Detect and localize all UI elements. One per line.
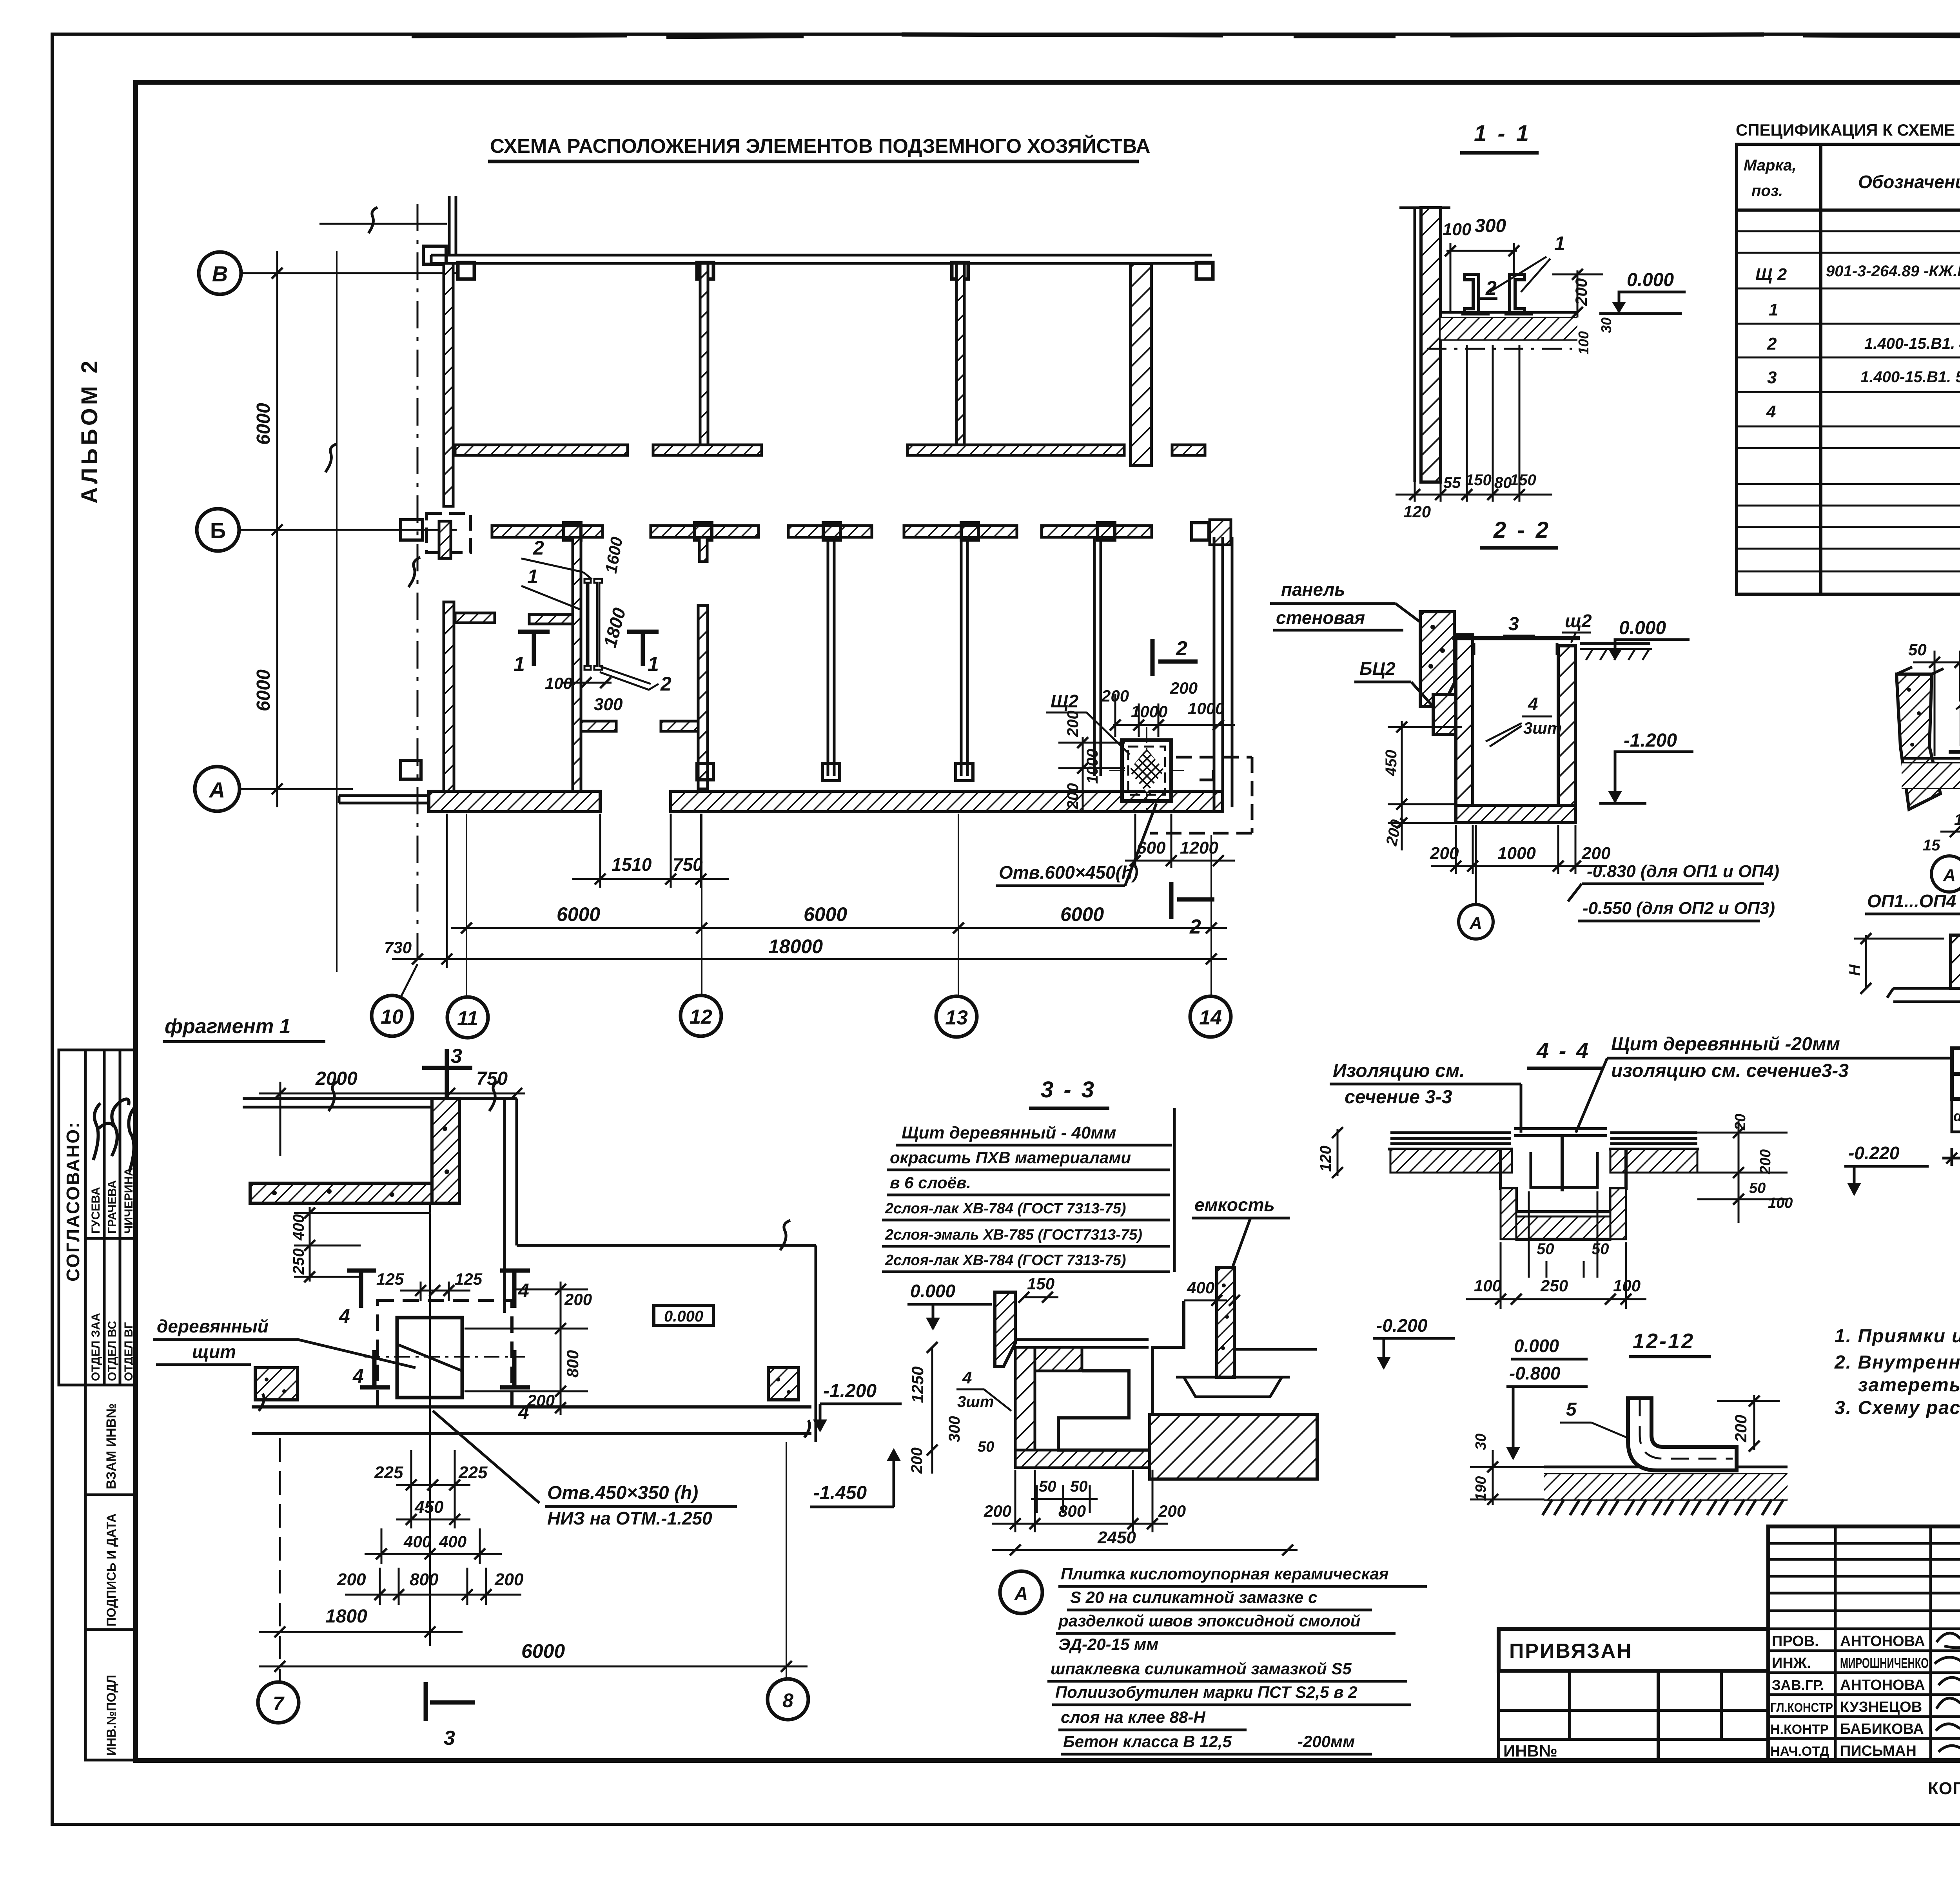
svg-text:1: 1 xyxy=(1769,300,1778,319)
svg-text:1. Приямки и лотки выполнить и: 1. Приямки и лотки выполнить из бетона к… xyxy=(1835,1326,1960,1347)
svg-text:200: 200 xyxy=(1064,711,1082,737)
svg-text:-0.830 (для ОП1 и ОП4): -0.830 (для ОП1 и ОП4) xyxy=(1587,862,1779,881)
section mark 1-1 right xyxy=(627,632,659,666)
svg-text:200: 200 xyxy=(908,1447,926,1474)
svg-text:ГРАЧЕВА: ГРАЧЕВА xyxy=(106,1180,119,1234)
svg-text:АНТОНОВА: АНТОНОВА xyxy=(1840,1633,1925,1650)
axis line Б xyxy=(239,529,457,531)
axis circle Б xyxy=(197,509,239,551)
svg-text:1.400-15.В1. 410-03: 1.400-15.В1. 410-03 xyxy=(1864,335,1960,352)
L concrete wall horizontal xyxy=(250,1183,432,1203)
svg-text:А: А xyxy=(1469,914,1482,933)
floor edge 3-3 xyxy=(1015,1340,1149,1347)
svg-text:800: 800 xyxy=(563,1350,582,1378)
svg-text:120: 120 xyxy=(1317,1146,1334,1172)
svg-text:-0.220: -0.220 xyxy=(1848,1143,1900,1163)
svg-text:ИНЖ.: ИНЖ. xyxy=(1772,1655,1811,1671)
grid 10 dash-dot axis xyxy=(417,204,419,968)
svg-text:АНТОНОВА: АНТОНОВА xyxy=(1840,1677,1925,1693)
trench 4-4 xyxy=(1501,1149,1626,1212)
floor hatch 1-1 xyxy=(1441,318,1577,339)
svg-text:КОПИРОВАЛ: КОРШУНОВА: КОПИРОВАЛ: КОРШУНОВА xyxy=(1928,1779,1960,1798)
svg-text:фрагмент 1: фрагмент 1 xyxy=(165,1015,291,1038)
svg-text:450: 450 xyxy=(1383,750,1400,776)
cover plate щ2 xyxy=(1452,636,1580,640)
svg-text:50: 50 xyxy=(1039,1478,1056,1495)
svg-text:Отв.600×450(h): Отв.600×450(h) xyxy=(999,862,1138,883)
щит plate 2 in plan xyxy=(594,579,602,670)
svg-text:4: 4 xyxy=(339,1305,350,1327)
ИНВ №ПОДЛ box xyxy=(85,1630,136,1760)
svg-text:слоя на клее 88-Н: слоя на клее 88-Н xyxy=(1061,1708,1206,1726)
pit wall x1140 lower xyxy=(444,602,454,791)
svg-text:стеновая: стеновая xyxy=(1276,607,1365,628)
svg-text:14: 14 xyxy=(1199,1006,1222,1029)
svg-text:емкость: емкость xyxy=(1194,1195,1275,1215)
spec table grid xyxy=(1737,144,1960,594)
vertical dim chain right of pit 200 800 200 xyxy=(465,1282,588,1415)
svg-text:55: 55 xyxy=(1443,474,1461,491)
tank bottom structure xyxy=(1176,1349,1317,1397)
svg-text:2: 2 xyxy=(1767,334,1777,353)
svg-text:ОТДЕЛ ЗАА: ОТДЕЛ ЗАА xyxy=(89,1313,102,1381)
svg-text:Бетон класса В 12,5: Бетон класса В 12,5 xyxy=(1063,1732,1232,1751)
column 11/В xyxy=(458,263,474,279)
svg-text:125: 125 xyxy=(455,1270,483,1288)
wall edge extension line xyxy=(336,251,338,972)
svg-text:2: 2 xyxy=(533,537,544,559)
small corner mark in dashed pit xyxy=(1200,770,1213,780)
L concrete wall vertical xyxy=(432,1099,459,1203)
щит plate 1 in plan xyxy=(584,579,591,670)
svg-text:затереть цементно - песчаным р: затереть цементно - песчаным раствором. xyxy=(1858,1375,1960,1396)
stem wall x2120 xyxy=(828,537,834,776)
svg-text:КУЗНЕЦОВ: КУЗНЕЦОВ xyxy=(1840,1699,1922,1715)
stem wall x1793 short top xyxy=(699,537,707,562)
svg-text:400: 400 xyxy=(439,1532,466,1551)
column at bottom of 1793 xyxy=(697,763,713,780)
svg-text:11: 11 xyxy=(457,1007,478,1030)
column 14/В xyxy=(1196,263,1213,279)
svg-text:6000: 6000 xyxy=(253,669,274,711)
plan lower part xyxy=(339,535,1252,938)
svg-text:120: 120 xyxy=(1403,502,1431,521)
room bottom wall xyxy=(252,1394,811,1438)
svg-text:3: 3 xyxy=(1767,368,1777,387)
svg-text:50: 50 xyxy=(1592,1240,1609,1258)
svg-text:300: 300 xyxy=(1475,216,1506,236)
right hatched column xyxy=(768,1368,799,1400)
svg-text:1200: 1200 xyxy=(1180,838,1218,857)
room right edge xyxy=(815,1245,817,1442)
Б/14 corner wall xyxy=(1210,520,1231,545)
А axis circle 2-2 xyxy=(1475,825,1477,905)
svg-text:Обозначение: Обозначение xyxy=(1858,172,1960,192)
dim line 6000s xyxy=(451,927,1227,929)
inner wood shield rect xyxy=(397,1318,462,1398)
pit Щ2 outer square xyxy=(1122,740,1171,801)
svg-text:0.000: 0.000 xyxy=(1514,1336,1559,1356)
ground hatch ticks xyxy=(1543,1499,1772,1515)
floor slab right part xyxy=(1609,1133,1699,1149)
svg-text:400: 400 xyxy=(1187,1278,1214,1297)
svg-text:150: 150 xyxy=(1510,471,1536,489)
svg-text:СОГЛАСОВАНО:: СОГЛАСОВАНО: xyxy=(63,1121,83,1282)
extension verticals xyxy=(447,814,1211,997)
svg-text:18000: 18000 xyxy=(768,935,823,957)
pit Щ2 inner dashed xyxy=(1128,747,1165,795)
привязан box xyxy=(1499,1629,1768,1671)
ground line right xyxy=(1580,642,1650,645)
svg-text:ПОДПИСЬ И ДАТА: ПОДПИСЬ И ДАТА xyxy=(104,1514,118,1626)
svg-text:4: 4 xyxy=(352,1365,364,1387)
svg-text:1: 1 xyxy=(1554,232,1565,254)
Б/10 column detail with dashed box xyxy=(426,513,470,553)
right wall lower xyxy=(1214,537,1232,812)
svg-text:30: 30 xyxy=(1473,1434,1489,1450)
svg-text:1: 1 xyxy=(648,653,659,676)
column 12/В xyxy=(697,263,713,279)
svg-text:150: 150 xyxy=(1465,471,1492,489)
svg-text:3: 3 xyxy=(1508,614,1519,634)
small dim line under щит xyxy=(561,682,612,684)
svg-text:4: 4 xyxy=(1766,402,1776,421)
pier concrete left xyxy=(1896,674,1940,809)
svg-text:5: 5 xyxy=(1566,1399,1577,1420)
svg-text:200: 200 xyxy=(984,1502,1011,1520)
pit bottom slab xyxy=(1456,805,1575,823)
pit left wall xyxy=(1456,635,1473,805)
svg-text:Н.КОНТР: Н.КОНТР xyxy=(1770,1722,1829,1737)
grid circle 14 xyxy=(1190,996,1231,1037)
svg-text:НИЗ на ОТМ.-1.250: НИЗ на ОТМ.-1.250 xyxy=(547,1508,712,1528)
left arm of wall 1470 xyxy=(529,615,573,624)
svg-text:200: 200 xyxy=(564,1290,592,1309)
axis circle А xyxy=(195,767,240,811)
support column hatched xyxy=(1951,935,1960,988)
svg-text:В: В xyxy=(212,261,228,286)
svg-text:А: А xyxy=(1943,866,1956,885)
dim 400 250 rotated xyxy=(294,1207,431,1282)
svg-text:1: 1 xyxy=(514,653,525,676)
svg-text:ГУСЕВА: ГУСЕВА xyxy=(89,1187,102,1234)
svg-text:-0.800: -0.800 xyxy=(1509,1363,1561,1383)
svg-text:250: 250 xyxy=(1540,1276,1568,1295)
stem wall x1470 (between Б and А) xyxy=(573,537,581,803)
section mark 3 bottom xyxy=(426,1682,475,1721)
wall stub above В xyxy=(448,196,451,255)
grid circle 10 xyxy=(372,995,412,1036)
svg-text:ГЛ.КОНСТР: ГЛ.КОНСТР xyxy=(1770,1700,1833,1715)
wall at grid 12 upper xyxy=(700,263,708,448)
ПОДПИСЬ И ДАТА box xyxy=(85,1495,136,1630)
trench left wall xyxy=(1015,1347,1035,1465)
corner plate at 11/В xyxy=(423,246,446,264)
dashed pit square xyxy=(377,1300,512,1407)
floor slab 1-1 xyxy=(1441,312,1577,339)
svg-text:Плитка кислотоупорная керамиче: Плитка кислотоупорная керамическая xyxy=(1061,1564,1389,1583)
dim 400 400 xyxy=(365,1528,502,1564)
svg-text:4: 4 xyxy=(1528,694,1538,714)
svg-text:поз.: поз. xyxy=(1751,182,1783,199)
svg-text:50: 50 xyxy=(1749,1180,1766,1196)
dim 200 800 200 xyxy=(345,1568,521,1605)
svg-text:12-12: 12-12 xyxy=(1633,1329,1695,1353)
pier dim ticks 1510 750 xyxy=(572,814,729,888)
svg-text:БАБИКОВА: БАБИКОВА xyxy=(1840,1721,1924,1737)
svg-text:Н: Н xyxy=(1846,964,1864,976)
pipe centerline xyxy=(1640,1398,1733,1459)
room top edge xyxy=(517,1244,816,1247)
left stamp block (СОГЛАСОВАНО) xyxy=(59,1050,136,1760)
signature table rows xyxy=(1768,1526,1960,1760)
ground slab 12-12 xyxy=(1544,1467,1788,1499)
grid circle 8 xyxy=(768,1679,808,1720)
svg-text:6000: 6000 xyxy=(521,1640,565,1662)
Б row column squares xyxy=(564,523,581,540)
svg-text:1 - 1: 1 - 1 xyxy=(1474,121,1531,146)
0.000 box xyxy=(654,1305,713,1325)
wall А hatched band right xyxy=(671,791,1223,812)
T-strip row 2 xyxy=(653,445,762,455)
svg-text:100: 100 xyxy=(1443,220,1472,239)
svg-text:2: 2 xyxy=(660,673,671,695)
dims 200 1000 200 1000 row xyxy=(1113,694,1235,737)
shelf hatched piece xyxy=(1035,1347,1082,1371)
svg-text:-1.200: -1.200 xyxy=(823,1381,877,1401)
svg-text:Б: Б xyxy=(210,518,226,543)
svg-text:3: 3 xyxy=(444,1727,455,1749)
svg-text:100: 100 xyxy=(1768,1195,1793,1211)
svg-text:1510: 1510 xyxy=(612,854,652,875)
А circle 3-3 xyxy=(1000,1571,1042,1613)
svg-text:Полиизобутилен марки ПСТ S2,5: Полиизобутилен марки ПСТ S2,5 в 2 xyxy=(1055,1683,1357,1701)
svg-text:200: 200 xyxy=(1430,844,1459,863)
trench inner steps xyxy=(1058,1301,1184,1450)
svg-text:2: 2 xyxy=(1176,637,1187,660)
svg-text:0.000: 0.000 xyxy=(1619,618,1666,638)
dims 600 1200 xyxy=(1125,814,1235,868)
svg-text:200: 200 xyxy=(1572,278,1590,306)
text block right border xyxy=(1173,1108,1176,1272)
dim 2450 xyxy=(992,1549,1298,1551)
stem wall x2460 xyxy=(961,537,967,776)
signatures scribble xyxy=(93,1103,114,1160)
svg-text:100: 100 xyxy=(1474,1276,1501,1295)
svg-text:ОТДЕЛ ВГ: ОТДЕЛ ВГ xyxy=(122,1322,135,1381)
svg-text:Отв.450×350 (h): Отв.450×350 (h) xyxy=(547,1483,698,1503)
svg-text:20: 20 xyxy=(1732,1114,1749,1131)
stem wall x2800 xyxy=(1094,537,1101,776)
wall left of 1-1 xyxy=(1421,208,1441,482)
svg-text:200: 200 xyxy=(1757,1149,1774,1175)
top wall В double line xyxy=(431,254,1212,257)
svg-text:ЗАВ.ГР.: ЗАВ.ГР. xyxy=(1772,1677,1824,1693)
rebar grid square xyxy=(1952,1048,1960,1132)
svg-text:400: 400 xyxy=(403,1532,431,1551)
wood shield over trench xyxy=(1514,1129,1607,1136)
svg-text:250: 250 xyxy=(290,1248,307,1275)
right hatched wall В-Б xyxy=(1131,263,1151,466)
T-strip row 4 xyxy=(1172,445,1205,455)
stem wall x1793 lower xyxy=(698,605,708,789)
arm of stem 1793 xyxy=(661,721,698,731)
svg-text:А: А xyxy=(209,778,225,802)
svg-text:d/2: d/2 xyxy=(1953,1108,1960,1124)
svg-text:50: 50 xyxy=(1537,1240,1554,1258)
svg-text:2слоя-эмаль ХВ-785 (ГОСТ7313-7: 2слоя-эмаль ХВ-785 (ГОСТ7313-75) xyxy=(885,1227,1142,1243)
svg-text:730: 730 xyxy=(384,938,412,957)
svg-text:сечение 3-3: сечение 3-3 xyxy=(1345,1087,1452,1108)
svg-text:6000: 6000 xyxy=(557,903,600,925)
grid circle 11 xyxy=(447,997,488,1038)
floor slab 11-11 xyxy=(1902,758,1960,788)
svg-text:НАЧ.ОТД: НАЧ.ОТД xyxy=(1770,1744,1829,1759)
extension verticals frag xyxy=(280,1203,786,1682)
svg-text:1: 1 xyxy=(527,566,538,587)
floor slab left part xyxy=(1388,1133,1513,1149)
svg-text:ВЗАМ ИНВ№: ВЗАМ ИНВ№ xyxy=(104,1403,119,1489)
shield stem xyxy=(1561,1136,1564,1191)
svg-text:1250: 1250 xyxy=(908,1367,927,1403)
svg-text:щ2: щ2 xyxy=(1565,611,1592,631)
svg-text:225: 225 xyxy=(458,1463,488,1482)
bottom captions xyxy=(1928,1778,1960,1829)
vertical dim line 6000x2 xyxy=(276,251,278,807)
svg-text:2450: 2450 xyxy=(1097,1528,1136,1547)
dim 225 225 xyxy=(396,1450,470,1528)
svg-text:3. Схему расположения опор см.: 3. Схему расположения опор см. лист 18. xyxy=(1835,1398,1960,1418)
grid circle 12 xyxy=(681,995,721,1036)
svg-text:панель: панель xyxy=(1281,579,1345,600)
lower cells xyxy=(1942,1099,1960,1166)
grid circle 13 xyxy=(936,996,977,1037)
wall panel concrete xyxy=(1420,612,1454,707)
svg-text:ИНВ№: ИНВ№ xyxy=(1503,1742,1557,1760)
T-strip row 1 xyxy=(455,445,628,455)
wall А thin left part xyxy=(339,796,429,803)
pit Щ2 centerlines xyxy=(1109,770,1184,771)
svg-text:450: 450 xyxy=(414,1497,444,1517)
svg-text:200: 200 xyxy=(1158,1502,1186,1520)
svg-text:15: 15 xyxy=(1923,837,1940,854)
svg-text:0.000: 0.000 xyxy=(1627,270,1674,290)
T-strip row 3 xyxy=(907,445,1124,455)
svg-text:200: 200 xyxy=(1064,783,1082,810)
svg-text:Щ 2: Щ 2 xyxy=(1755,265,1787,284)
dim 125 125 xyxy=(400,1282,470,1301)
svg-text:6000: 6000 xyxy=(1060,903,1104,925)
bottom dims 120 55 150 80 150 xyxy=(1396,345,1552,502)
svg-text:800: 800 xyxy=(410,1570,439,1589)
svg-text:150: 150 xyxy=(1027,1274,1054,1293)
svg-text:50: 50 xyxy=(978,1439,994,1455)
scan noise dashes on top edge xyxy=(412,34,1960,37)
svg-text:в 6 слоёв.: в 6 слоёв. xyxy=(890,1173,971,1192)
svg-text:изоляцию см. сечение3-3: изоляцию см. сечение3-3 xyxy=(1611,1060,1849,1081)
stamp column lines xyxy=(84,1050,87,1385)
dim 2000 750 xyxy=(259,1082,525,1156)
БЦ2 block xyxy=(1433,694,1456,734)
dims 200 1000 200 bottom xyxy=(1431,825,1607,874)
svg-text:3шт: 3шт xyxy=(957,1393,994,1410)
base plate 11-11 xyxy=(1949,750,1960,754)
А circle 11-11 xyxy=(1931,856,1960,892)
pit Щ2 crosshatch xyxy=(1129,749,1164,793)
dim 6000 frag xyxy=(259,1666,808,1668)
svg-text:деревянный: деревянный xyxy=(157,1316,269,1336)
grid circle 7 xyxy=(258,1682,299,1723)
plan bottom dimensions xyxy=(372,814,1231,1038)
channel 1 xyxy=(1465,274,1479,314)
svg-text:600: 600 xyxy=(1137,838,1166,857)
svg-text:2слоя-лак ХВ-784 (ГОСТ 7313-75: 2слоя-лак ХВ-784 (ГОСТ 7313-75) xyxy=(885,1252,1126,1269)
svg-text:-0.200: -0.200 xyxy=(1376,1315,1428,1336)
svg-text:7: 7 xyxy=(273,1693,285,1715)
svg-text:901-3-264.89 -КЖ.И80.010-01: 901-3-264.89 -КЖ.И80.010-01 xyxy=(1826,263,1960,280)
svg-text:750: 750 xyxy=(673,854,703,875)
svg-text:50: 50 xyxy=(1908,640,1927,659)
svg-text:200: 200 xyxy=(337,1570,366,1589)
wall top left hatched xyxy=(995,1292,1015,1367)
svg-text:4 - 4: 4 - 4 xyxy=(1536,1038,1590,1063)
title underline xyxy=(488,160,1139,163)
svg-text:6000: 6000 xyxy=(253,403,274,445)
dim 1800 xyxy=(259,1631,463,1633)
svg-text:300: 300 xyxy=(946,1416,963,1442)
bottom dims 15 150 170 150 xyxy=(1940,766,1960,841)
wall at grid 13 upper xyxy=(956,263,964,448)
svg-text:800: 800 xyxy=(1058,1502,1086,1520)
svg-text:80: 80 xyxy=(1494,474,1512,491)
title block outline xyxy=(1768,1526,1960,1760)
svg-text:разделкой швов эпоксидной смол: разделкой швов эпоксидной смолой xyxy=(1058,1612,1361,1630)
Б strips xyxy=(492,526,603,537)
panel line above plan xyxy=(319,223,447,225)
svg-text:ЧИЧЕРИНА: ЧИЧЕРИНА xyxy=(122,1167,135,1234)
svg-text:1000: 1000 xyxy=(1131,702,1167,721)
arm of wall 1470 lower xyxy=(581,721,616,731)
arm of facing wall x1140 xyxy=(455,613,495,623)
dim line 18000 xyxy=(392,958,1227,960)
svg-text:13: 13 xyxy=(945,1006,968,1029)
column 10/А xyxy=(401,760,421,779)
section mark 3 top xyxy=(422,1049,472,1097)
svg-text:10: 10 xyxy=(381,1006,403,1028)
lower left rows xyxy=(1499,1671,1768,1760)
svg-text:12: 12 xyxy=(690,1006,712,1028)
svg-text:ПРИВЯЗАН: ПРИВЯЗАН xyxy=(1509,1640,1633,1662)
big concrete block xyxy=(1150,1414,1317,1479)
svg-text:ПИСЬМАН: ПИСЬМАН xyxy=(1840,1743,1916,1759)
svg-text:S 20 на силикатной замазке с: S 20 на силикатной замазке с xyxy=(1070,1588,1317,1606)
svg-text:3шт: 3шт xyxy=(1523,719,1562,737)
svg-text:200: 200 xyxy=(1170,679,1198,697)
svg-text:1800: 1800 xyxy=(325,1606,367,1627)
wall at grid 11 upper xyxy=(444,263,453,506)
wall А hatched band left xyxy=(429,791,600,812)
svg-text:-1.450: -1.450 xyxy=(813,1483,867,1503)
svg-text:СХЕМА РАСПОЛОЖЕНИЯ ЭЛЕМЕНТОВ: СХЕМА РАСПОЛОЖЕНИЯ ЭЛЕМЕНТОВ ПОДЗЕМНОГО … xyxy=(490,134,1150,157)
svg-text:125: 125 xyxy=(376,1270,404,1288)
svg-text:БЦ2: БЦ2 xyxy=(1359,658,1396,679)
svg-text:1000: 1000 xyxy=(1497,844,1536,863)
svg-text:ИНВ.№ПОДЛ: ИНВ.№ПОДЛ xyxy=(104,1675,118,1756)
svg-text:ОТДЕЛ ВС: ОТДЕЛ ВС xyxy=(106,1321,119,1381)
pipe bend 12-12 xyxy=(1628,1398,1737,1470)
svg-text:1.400-15.В1. 540-09: 1.400-15.В1. 540-09 xyxy=(1860,368,1960,386)
svg-text:50: 50 xyxy=(1070,1478,1088,1495)
